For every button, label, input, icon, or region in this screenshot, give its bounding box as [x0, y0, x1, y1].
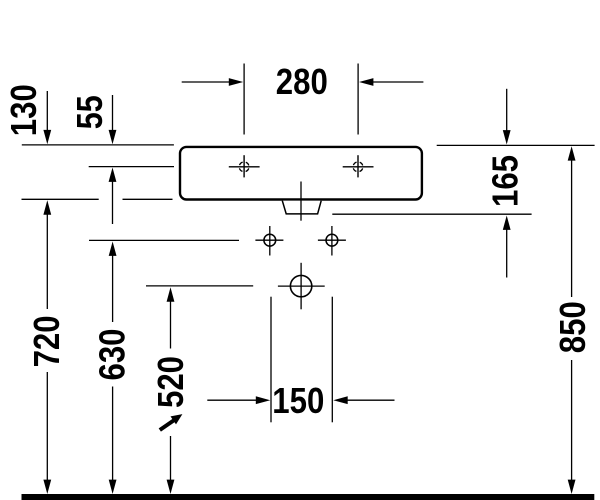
svg-text:280: 280	[276, 61, 328, 102]
svg-text:630: 630	[92, 329, 133, 381]
tap hole crosshair right	[343, 155, 374, 177]
dimension 165 lower arrow	[503, 216, 511, 278]
dimension 150 arrow left	[207, 396, 270, 404]
dimension 165 upper arrow	[503, 89, 511, 145]
dimension 55 upper arrow	[109, 95, 117, 144]
extension line basin bottom left segment a	[22, 198, 99, 200]
svg-text:165: 165	[485, 155, 526, 207]
dimension 150 extension line left	[270, 297, 272, 423]
floor line	[22, 494, 595, 500]
dimension 150 extension line right	[331, 297, 333, 423]
svg-text:720: 720	[26, 315, 67, 367]
extension line rim level left	[22, 144, 174, 146]
dimension 520 diagonal arrow	[160, 414, 183, 430]
dimension 280 arrow right	[359, 78, 423, 86]
fixing hole right	[318, 226, 346, 256]
fixing hole left	[255, 226, 283, 256]
extension line basin bottom left segment b	[123, 198, 173, 200]
dimension 720 line lower part	[43, 372, 51, 494]
dimension 630 line lower part	[109, 387, 117, 495]
dimension 630 line upper part	[109, 242, 117, 323]
dimension 280 arrow left	[182, 78, 244, 86]
dimension 850 line lower part	[568, 360, 576, 494]
basin outline	[180, 147, 422, 200]
dimension 520 line upper part	[167, 287, 175, 348]
drain outlet trapezoid	[282, 201, 321, 214]
extension line rim level right	[437, 144, 595, 146]
dimension 130 arrow	[43, 91, 51, 144]
dimension 280 extension line left	[243, 64, 245, 135]
svg-text:850: 850	[552, 301, 593, 353]
center line through drain outlet	[300, 182, 302, 221]
tap hole crosshair left	[229, 155, 260, 177]
extension line drain level left	[146, 285, 253, 287]
svg-text:55: 55	[69, 95, 110, 129]
svg-text:130: 130	[3, 84, 44, 136]
dimension 520 line lower part	[167, 436, 175, 494]
svg-text:150: 150	[272, 380, 324, 421]
dimension 850 line upper part	[568, 146, 576, 297]
dimension 280 extension line right	[357, 64, 359, 135]
drain hole circle	[278, 263, 325, 310]
extension line tap hole level left	[89, 166, 174, 168]
dimension 720 line upper part	[43, 200, 51, 309]
extension line fixing hole level left	[89, 239, 239, 241]
extension line outlet bottom right	[332, 213, 531, 215]
dimension 150 arrow right	[333, 396, 394, 404]
dimension 55 lower arrow	[109, 168, 117, 225]
svg-text:520: 520	[150, 356, 191, 408]
